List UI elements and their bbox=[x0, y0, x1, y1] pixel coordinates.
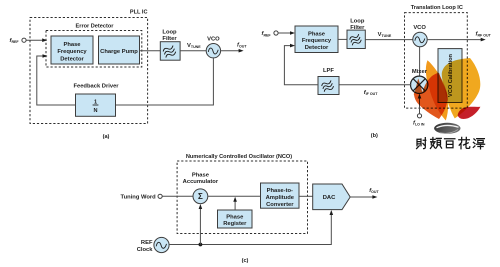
wire fREF to PFD (a) bbox=[26, 38, 47, 42]
logo petal yellow big bbox=[442, 58, 481, 118]
svg-text:Amplitude: Amplitude bbox=[266, 195, 295, 201]
svg-text:Register: Register bbox=[223, 221, 247, 227]
wire sigma to phase amplitude converter (c) bbox=[208, 195, 261, 197]
wire loop filter to VCO with VTUNE label (a) bbox=[180, 43, 206, 51]
wire mixer to LPF with fIFOUT label (b) bbox=[339, 85, 411, 96]
PLL IC dashed box (a) bbox=[30, 10, 148, 124]
LPF box (b) bbox=[318, 68, 339, 94]
svg-text:Numerically Controlled Oscilla: Numerically Controlled Oscillator (NCO) bbox=[186, 154, 292, 160]
svg-text:Phase: Phase bbox=[308, 31, 326, 37]
VCO circle (a) bbox=[206, 37, 220, 58]
svg-text:Converter: Converter bbox=[266, 202, 294, 208]
svg-text:Loop: Loop bbox=[350, 19, 365, 25]
Translation Loop IC dashed box (b) bbox=[405, 5, 468, 108]
wire VCO to fRFOUT (b) bbox=[427, 31, 492, 41]
svg-text:PLL IC: PLL IC bbox=[130, 10, 148, 16]
logo grey dish bbox=[434, 123, 460, 134]
svg-text:Feedback Driver: Feedback Driver bbox=[73, 84, 119, 90]
logo chinese text 射频百花潭 bbox=[417, 137, 485, 149]
sigma adder circle with Phase Accumulator label (c) bbox=[183, 173, 219, 204]
svg-text:Translation Loop IC: Translation Loop IC bbox=[411, 5, 463, 11]
wire rail up into sigma (c) bbox=[199, 204, 203, 245]
phase register box (c) bbox=[218, 210, 253, 228]
loop filter box (a) bbox=[160, 30, 180, 61]
node fLOIN with arrow into mixer bottom (b) bbox=[413, 94, 425, 127]
wire PFD to loop filter (b) bbox=[338, 38, 347, 40]
svg-text:Charge Pump: Charge Pump bbox=[100, 49, 138, 55]
node fREF input (b) bbox=[262, 31, 279, 38]
VCO circle (b) bbox=[413, 25, 427, 47]
svg-text:(c): (c) bbox=[242, 258, 249, 264]
svg-text:Loop: Loop bbox=[162, 30, 177, 36]
DAC pentagon (c) bbox=[313, 184, 351, 210]
svg-text:Mixer: Mixer bbox=[412, 69, 428, 75]
svg-text:Clock: Clock bbox=[137, 247, 154, 253]
phase to amplitude converter box (c) bbox=[261, 183, 300, 208]
wire phase register up into sigma wire (c) bbox=[233, 197, 237, 210]
wire converter to DAC (c) bbox=[299, 195, 313, 197]
svg-text:Σ: Σ bbox=[198, 192, 203, 201]
wire VCO down to mixer (b) bbox=[419, 47, 421, 77]
svg-text:(b): (b) bbox=[371, 133, 378, 139]
caption (c) bbox=[242, 258, 249, 264]
wire loop filter to VCO with VTUNE label (b) bbox=[365, 32, 413, 40]
logo petal orange bbox=[414, 73, 448, 119]
svg-text:Phase: Phase bbox=[192, 173, 210, 179]
charge pump box (a) bbox=[99, 36, 140, 64]
svg-text:Phase: Phase bbox=[63, 42, 81, 48]
svg-text:Detector: Detector bbox=[60, 57, 84, 63]
svg-text:Accumulator: Accumulator bbox=[183, 179, 219, 185]
caption (a) bbox=[103, 134, 110, 140]
wire tuning word to sigma (c) bbox=[162, 195, 193, 197]
svg-text:Phase: Phase bbox=[226, 214, 244, 220]
svg-text:(a): (a) bbox=[103, 134, 110, 140]
node tuning word input (c) bbox=[121, 194, 163, 200]
phase frequency detector box (b) bbox=[295, 26, 338, 53]
svg-text:DAC: DAC bbox=[323, 195, 336, 201]
svg-text:Error Detector: Error Detector bbox=[76, 24, 115, 30]
node fREF input (a) bbox=[10, 38, 27, 44]
clock rail wire (c) bbox=[169, 210, 333, 245]
svg-text:Phase-to-: Phase-to- bbox=[267, 188, 293, 194]
svg-text:N: N bbox=[93, 108, 97, 114]
NCO dashed box (c) bbox=[177, 154, 307, 234]
svg-text:Frequency: Frequency bbox=[57, 49, 87, 55]
svg-text:Detector: Detector bbox=[305, 45, 329, 51]
wire fREF to PFD (b) bbox=[278, 31, 295, 35]
Error Detector dashed box (a) bbox=[46, 24, 142, 68]
logo petal yellow back bbox=[426, 60, 448, 120]
logo petal red swoosh bbox=[458, 107, 481, 119]
svg-text:VCO: VCO bbox=[207, 37, 220, 43]
svg-text:Frequency: Frequency bbox=[302, 38, 332, 44]
REF clock source circle (c) bbox=[137, 237, 169, 252]
phase frequency detector box (a) bbox=[51, 36, 93, 64]
wire charge pump to loop filter (a) bbox=[140, 50, 161, 52]
mixer circle (b) bbox=[411, 69, 428, 93]
junction dot on rail under sigma (c) bbox=[199, 243, 203, 247]
svg-text:REF: REF bbox=[141, 240, 153, 246]
wire VCO to fOUT (a) bbox=[221, 42, 248, 52]
svg-text:VCO: VCO bbox=[413, 25, 426, 31]
svg-text:Filter: Filter bbox=[350, 25, 365, 31]
divider 1/N box with Feedback Driver label (a) bbox=[73, 84, 119, 117]
svg-text:LPF: LPF bbox=[323, 68, 334, 74]
feedback wire VCO down and left to 1/N box (a) bbox=[116, 58, 214, 105]
VCO Calibration box (b) bbox=[438, 49, 462, 103]
wire DAC to fOUT (c) bbox=[350, 188, 379, 199]
svg-text:Filter: Filter bbox=[162, 36, 177, 42]
loop filter box (b) bbox=[347, 19, 365, 49]
wire LPF up to PFD second input (b) bbox=[284, 44, 318, 85]
feedback wire 1/N to PFD second input (a) bbox=[37, 54, 76, 105]
svg-text:Tuning Word: Tuning Word bbox=[121, 195, 157, 201]
caption (b) bbox=[371, 133, 378, 139]
